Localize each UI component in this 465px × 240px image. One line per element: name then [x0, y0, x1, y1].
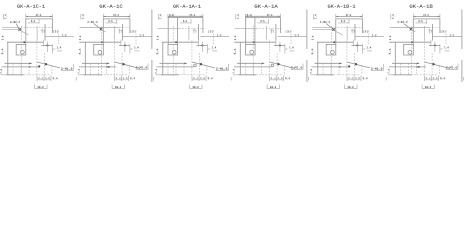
plunger lines — [37, 24, 45, 41]
left dimension 7.4 lower — [155, 69, 157, 73]
title GK-A-1B — [410, 5, 433, 8]
terminal lines — [401, 40, 440, 75]
lower hole mark — [38, 65, 40, 67]
left dimension 7.4 lower — [233, 69, 235, 73]
plunger width bracket — [193, 30, 196, 33]
leader line — [16, 24, 19, 29]
centerline vertical — [330, 26, 332, 76]
dimension 17.4 — [168, 14, 203, 19]
left dimension 7.4 lower — [310, 69, 312, 73]
dimension 17.4 — [26, 14, 53, 19]
lever leader — [270, 62, 296, 69]
bottom line — [388, 74, 438, 76]
terminal lines — [246, 40, 285, 75]
terminal pitch dimensions — [425, 76, 464, 82]
roller box — [16, 44, 26, 55]
dimension 10.2 — [112, 85, 124, 89]
plunger width bracket — [428, 30, 431, 33]
terminal top line — [237, 63, 264, 64]
lower hole circle — [194, 64, 197, 67]
terminal lines — [323, 40, 362, 75]
lever leader — [347, 62, 370, 68]
label 2-Φ2.2 — [398, 21, 408, 23]
title GK-A-1C-1 — [17, 5, 44, 8]
plunger lines — [115, 24, 123, 41]
terminal top line — [82, 63, 109, 64]
left dimension 2.4 — [79, 36, 81, 40]
bottom line — [78, 74, 128, 76]
left dimension 7.4 top — [158, 14, 161, 20]
centerline upper — [157, 28, 204, 30]
terminal lines — [13, 40, 52, 75]
centerline middle — [389, 40, 431, 46]
left dimension 2.4 — [2, 36, 4, 40]
centerline lower hole — [389, 66, 426, 67]
dimension 6.5 — [28, 19, 39, 24]
dimension 6.5 — [180, 19, 191, 24]
label 2-Φ2.2 — [88, 21, 98, 23]
dimension 1.4 — [429, 42, 450, 54]
hole center mark 1 — [332, 28, 342, 35]
terminal pitch dimensions — [115, 76, 154, 82]
dimension 5.1 — [169, 14, 173, 16]
left edge line — [7, 42, 9, 75]
switch body outline — [168, 18, 203, 46]
roller box — [94, 44, 104, 55]
dimension 17.4 — [413, 14, 440, 19]
label 4-Φ2.2 — [10, 21, 20, 23]
plunger lines — [189, 24, 199, 41]
centerline vertical — [172, 26, 174, 76]
centerline lower hole — [2, 66, 39, 67]
dimension 6.5 — [338, 19, 349, 24]
dimension 6.5 — [258, 19, 269, 24]
dimension 10.2 — [35, 85, 47, 89]
lower hole mark — [348, 65, 350, 67]
plunger lines — [266, 24, 276, 41]
extension line right — [151, 10, 153, 83]
centerline vertical — [252, 26, 254, 76]
left dimension 7.4 top — [391, 14, 394, 20]
dimension 1.4 — [352, 42, 373, 54]
switch body outline — [246, 18, 281, 46]
left edge line — [162, 42, 164, 75]
dimension 3 — [209, 30, 213, 33]
dimension 17.4 — [103, 14, 130, 19]
lower hole mark — [418, 66, 420, 68]
dimension 10.2 — [345, 85, 357, 89]
centerline upper — [312, 27, 362, 29]
dimension 1.2 — [45, 31, 74, 45]
terminal top line — [315, 63, 342, 64]
bottom line — [1, 74, 51, 76]
dimension 1.2 — [355, 31, 384, 45]
extension line right — [306, 10, 308, 83]
left edge line — [84, 42, 86, 75]
left edge line — [394, 42, 396, 75]
label 1-Φ2.2 — [320, 21, 330, 23]
dimension 6.5 — [416, 19, 427, 24]
roller box — [246, 44, 256, 55]
left dimension 7.4 top — [81, 14, 84, 20]
left dimension 7.4 top — [236, 14, 239, 20]
left dimension 7.4 top — [3, 14, 6, 20]
dimension 6.5 — [106, 19, 117, 24]
left dimension 2.4 — [312, 36, 314, 40]
left dimension 7.4 lower — [78, 69, 80, 73]
centerline lower hole — [79, 66, 116, 67]
terminal pitch dimensions — [347, 76, 386, 82]
plunger width bracket — [351, 30, 354, 33]
left dimension 7.4 top — [313, 14, 316, 20]
left dimension 5.4 — [389, 49, 391, 55]
left dimension 5.4 — [311, 49, 313, 55]
plunger lines — [425, 24, 433, 41]
centerline upper — [80, 27, 132, 29]
hole center mark 1 — [100, 28, 106, 32]
dimension 10.2 — [267, 85, 279, 89]
terminal pitch dimensions — [37, 76, 76, 82]
terminal top line — [392, 63, 419, 64]
left dimension 5.4 — [156, 49, 158, 55]
centerline middle — [79, 40, 121, 46]
dimension 1.4 — [42, 42, 63, 54]
bottom line — [311, 74, 361, 76]
dimension 1.2 — [123, 31, 152, 45]
dimension 10.2 — [422, 85, 434, 89]
dimension 3 — [364, 30, 368, 33]
bottom line — [156, 74, 206, 76]
bottom line — [233, 74, 283, 76]
centerline lower hole — [234, 66, 271, 68]
leader line — [326, 24, 333, 29]
label 2-M1.6 — [371, 64, 384, 71]
lever leader — [192, 62, 215, 68]
left dimension 5.4 — [79, 49, 81, 55]
centerline middle — [234, 40, 276, 46]
leader line — [404, 24, 411, 29]
hole center mark 1 — [18, 28, 28, 35]
dimension 3 — [54, 30, 58, 33]
dimension 17.4 — [336, 14, 363, 19]
title GK-A-1B-1 — [328, 5, 355, 8]
lever leader — [115, 62, 141, 69]
dimension 1.2 — [433, 31, 462, 45]
left dimension 2.4 — [234, 36, 236, 40]
centerline middle — [7, 40, 43, 46]
centerline upper — [390, 27, 442, 29]
dimension 1.2 — [278, 31, 307, 45]
switch body outline — [413, 19, 440, 45]
plunger width bracket — [270, 30, 273, 33]
plunger width bracket — [118, 30, 121, 33]
left dimension 2.4 — [389, 36, 391, 40]
left edge line — [317, 42, 319, 75]
label 2-M1.6 — [216, 64, 229, 71]
left dimension 7.4 lower — [388, 69, 390, 73]
hole center mark 1 — [410, 28, 416, 32]
centerline vertical — [100, 26, 102, 76]
lever leader — [37, 62, 60, 68]
left dimension 7.4 lower — [0, 69, 2, 73]
dimension 10.2 — [190, 85, 202, 89]
title GK-A-1A-1 — [173, 5, 200, 8]
left dimension 5.4 — [1, 49, 3, 55]
centerline vertical — [20, 26, 22, 76]
centerline lower hole — [312, 66, 349, 67]
centerline vertical — [410, 26, 412, 76]
left dimension 2.4 — [157, 36, 159, 40]
left dimension 5.4 — [234, 49, 236, 55]
dimension 1.4 — [119, 42, 140, 54]
terminal lines — [168, 40, 207, 75]
dimension 1.4 — [274, 42, 295, 54]
switch body outline — [336, 19, 363, 45]
dimension 5.1 — [247, 14, 251, 16]
title GK-A-1A — [255, 5, 278, 8]
centerline middle — [317, 40, 353, 46]
dimension 17.4 — [245, 14, 280, 19]
dimension 3 — [131, 30, 135, 33]
dimension 1.2 — [200, 31, 229, 45]
centerline lower hole — [157, 66, 194, 68]
left edge line — [239, 42, 241, 75]
extension line right — [461, 10, 463, 83]
terminal pitch dimensions — [270, 76, 309, 82]
leader line — [94, 24, 101, 29]
switch body outline — [103, 19, 130, 45]
plunger lines — [347, 24, 355, 41]
dimension 1.4 — [197, 42, 218, 54]
terminal lines — [91, 40, 130, 75]
label 2-M1.6 — [136, 64, 148, 70]
label 2-M1.6 — [291, 64, 303, 70]
centerline upper — [2, 27, 52, 29]
terminal top line — [160, 63, 187, 64]
label 2-M1.6 — [446, 64, 458, 70]
centerline upper — [235, 28, 282, 30]
centerline middle — [162, 40, 198, 46]
lever leader — [425, 62, 451, 69]
plunger width bracket — [41, 30, 44, 33]
roller box — [168, 44, 178, 55]
lower hole mark — [108, 66, 110, 68]
terminal pitch dimensions — [192, 76, 231, 82]
dimension 3 — [286, 30, 290, 33]
terminal top line — [5, 63, 32, 64]
lower hole circle — [271, 64, 274, 67]
dimension 3 — [441, 30, 445, 33]
title GK-A-1C — [100, 5, 123, 8]
roller box — [404, 44, 414, 55]
label 2-M1.6 — [61, 64, 74, 71]
switch body outline — [26, 19, 53, 45]
roller box — [326, 44, 336, 55]
